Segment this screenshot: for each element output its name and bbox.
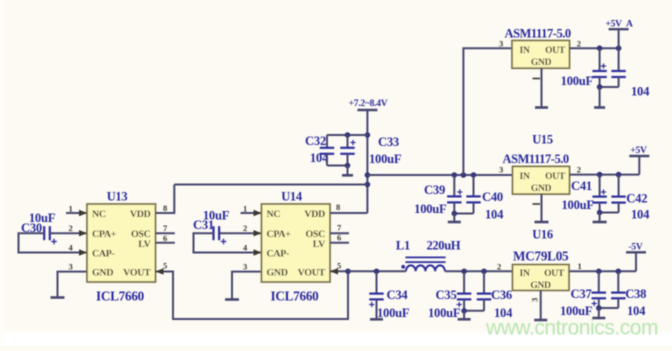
label 100uF of top capacitor — [561, 74, 594, 88]
pin number 4 of U14 — [243, 243, 248, 253]
junction C39 top — [452, 172, 458, 178]
svg-text:C35: C35 — [436, 288, 457, 302]
svg-text:ASM1117-5.0: ASM1117-5.0 — [503, 152, 569, 166]
pin number 3 of U13 — [69, 262, 73, 272]
wire C37 bottom to ground — [598, 308, 600, 318]
wire U14 pin 3 to ground — [232, 272, 262, 300]
inductor L1 phase dot — [401, 265, 405, 269]
label 104 of C36 — [494, 306, 513, 320]
svg-text:2: 2 — [577, 165, 581, 175]
pin number 2 of U15 — [577, 165, 581, 175]
U13 pin name GND — [92, 268, 113, 279]
svg-text:3: 3 — [243, 262, 247, 272]
pin number 1 of U14 — [243, 204, 247, 214]
svg-text:L1: L1 — [396, 239, 410, 253]
ground at U16 GND — [534, 319, 547, 322]
pin number 2 of U13 — [69, 223, 73, 233]
capacitor C36 — [477, 271, 491, 311]
svg-text:U13: U13 — [107, 190, 128, 204]
wire U14 pin 7 stub — [330, 232, 349, 234]
label 100uF of C37 — [560, 304, 593, 318]
svg-text:5: 5 — [337, 261, 341, 271]
wire U15 GND pin — [541, 194, 543, 222]
capacitor C33 — [340, 135, 355, 166]
power +5V A label — [606, 20, 634, 30]
wire U14 pin 5 to output rail — [330, 268, 348, 274]
label C39 — [424, 183, 445, 197]
wire top regulator OUT — [570, 47, 619, 49]
wire C35 C36 bottoms — [464, 310, 484, 312]
label 104 of C42 — [631, 208, 650, 222]
wire C41 C42 bottoms — [600, 212, 619, 214]
wire -5V riser — [635, 252, 637, 271]
label 100uF of C33 — [369, 152, 402, 166]
svg-text:100uF: 100uF — [428, 306, 461, 320]
junction top 100uF cap — [597, 45, 603, 51]
pin number 3 of U14 — [243, 262, 247, 272]
svg-text:100uF: 100uF — [561, 74, 594, 88]
ground at U13 pin 3 — [51, 296, 65, 299]
svg-text:2: 2 — [243, 223, 247, 233]
svg-text:6: 6 — [337, 233, 341, 243]
wire top capacitor to ground — [599, 87, 601, 108]
label C31 — [193, 218, 214, 232]
svg-text:IN: IN — [520, 172, 530, 182]
U13 pin name VOUT — [123, 268, 151, 279]
label C38 — [625, 287, 646, 301]
label ASM1117-5.0 of U15 — [503, 152, 569, 166]
pin number 6 of U13 — [163, 233, 167, 243]
wire C39 C40 bottoms — [454, 213, 473, 215]
pin number 3 of top regulator — [499, 39, 503, 49]
svg-text:GND: GND — [530, 281, 551, 291]
svg-text:8: 8 — [336, 202, 340, 212]
power bar +5V — [629, 155, 649, 157]
svg-text:U14: U14 — [281, 190, 303, 204]
label 10uF of C31 — [203, 209, 230, 223]
junction C35 bottom — [461, 308, 467, 314]
junction input/C32 branch — [365, 132, 371, 138]
svg-text:104: 104 — [627, 304, 646, 318]
svg-text:3: 3 — [69, 262, 73, 272]
pin number 2 of U14 — [243, 223, 247, 233]
wire U13 pin 6 stub — [156, 242, 175, 244]
wire U14 pin 8 to VDD rail — [330, 212, 367, 214]
svg-text:U16: U16 — [532, 228, 553, 242]
U16 pin name GND — [530, 281, 551, 291]
svg-text:C32: C32 — [305, 134, 326, 148]
svg-text:C33: C33 — [378, 135, 399, 149]
svg-text:ICL7660: ICL7660 — [96, 289, 145, 304]
svg-text:NC: NC — [92, 209, 106, 220]
label C37 — [571, 287, 592, 301]
junction VOUT rail — [345, 269, 351, 275]
ground at C35 C36 — [458, 318, 471, 321]
label C34 — [387, 288, 409, 302]
power bar +7.2~8.4V — [357, 109, 377, 111]
label 220uH of L1 — [427, 239, 461, 253]
svg-text:-5V: -5V — [628, 243, 642, 253]
label U14 — [281, 190, 303, 204]
svg-text:C34: C34 — [387, 288, 409, 302]
capacitor C34 — [369, 271, 384, 319]
U16 pin name IN — [520, 269, 530, 279]
wire riser to top regulator IN — [463, 48, 512, 175]
pin number 7 of U14 — [337, 223, 342, 233]
label U15 — [532, 133, 553, 147]
svg-text:104: 104 — [485, 208, 504, 222]
wire C32 C33 bottoms — [327, 165, 348, 167]
wire C30 to U13 pin 2 — [50, 230, 87, 236]
capacitor 100uF at top regulator — [592, 48, 606, 87]
U14 pin name CAP- — [267, 249, 290, 260]
svg-text:U15: U15 — [532, 133, 553, 147]
label 104 of C38 — [627, 304, 646, 318]
pin number 4 of U13 — [69, 243, 74, 253]
label 10uF of C30 — [29, 211, 56, 225]
wire +5V riser — [638, 156, 640, 175]
svg-text:GND: GND — [531, 58, 552, 68]
inductor L1 coil — [406, 265, 445, 271]
wire to C32 C33 tops — [327, 134, 367, 136]
svg-text:3: 3 — [530, 298, 540, 302]
pin number 2 of U16 — [497, 262, 501, 272]
svg-text:OUT: OUT — [545, 46, 566, 56]
U14 pin name VDD — [304, 209, 325, 220]
ground at C37 C38 — [592, 317, 605, 320]
svg-text:C40: C40 — [482, 190, 503, 204]
svg-text:IN: IN — [520, 46, 530, 56]
pin number 6 of U14 — [337, 233, 341, 243]
junction riser to top regulator — [461, 172, 467, 178]
wire +5V A riser — [618, 29, 620, 48]
capacitor C31 — [214, 226, 227, 244]
capacitor C41 — [592, 175, 606, 213]
wire input node to U15 IN — [367, 174, 512, 176]
U14 pin name LV — [313, 239, 326, 250]
IC U14 ICL7660 body — [262, 204, 331, 282]
svg-text:VDD: VDD — [130, 209, 151, 220]
wire U13 pin 3 to ground — [58, 272, 88, 298]
wire main input vertical — [366, 110, 368, 213]
svg-text:1: 1 — [578, 261, 582, 271]
wire U16 GND pin — [540, 290, 542, 320]
svg-text:C42: C42 — [626, 192, 647, 206]
svg-text:2: 2 — [69, 223, 73, 233]
svg-text:C36: C36 — [491, 288, 512, 302]
label 100uF of C35 — [428, 306, 461, 320]
pin number 1 of top regulator — [533, 78, 541, 80]
svg-text:IN: IN — [520, 269, 530, 279]
svg-text:3: 3 — [499, 165, 503, 175]
label ICL7660 of U14 — [270, 289, 319, 304]
label L1 — [396, 239, 410, 253]
regulator U16 MC79L05 body — [513, 265, 570, 291]
svg-text:C39: C39 — [424, 183, 445, 197]
wire U13 pin 8 to VDD rail — [156, 185, 175, 214]
svg-text:100uF: 100uF — [369, 152, 402, 166]
svg-text:VOUT: VOUT — [123, 268, 151, 279]
svg-text:LV: LV — [138, 239, 151, 250]
capacitor C42 — [611, 175, 625, 213]
label C33 — [378, 135, 399, 149]
U13 pin name VDD — [130, 209, 151, 220]
top regulator pin name GND — [531, 58, 552, 68]
top regulator pin name OUT — [545, 46, 566, 56]
power -5V label — [628, 243, 642, 253]
junction C33 top — [345, 132, 351, 138]
label U13 — [107, 190, 128, 204]
wire C33 bottom to ground — [347, 166, 349, 176]
junction C35 top — [461, 269, 467, 275]
power +7.2~8.4V label — [349, 99, 388, 109]
svg-text:C41: C41 — [571, 179, 592, 193]
label 100uF of C39 — [414, 202, 447, 216]
svg-text:104: 104 — [494, 306, 513, 320]
svg-text:ASM1117-5.0: ASM1117-5.0 — [505, 27, 571, 41]
ground at C41 C42 — [593, 221, 607, 224]
svg-text:3: 3 — [499, 39, 503, 49]
capacitor C32 — [320, 135, 334, 166]
label 104 of C40 — [485, 208, 504, 222]
svg-text:C38: C38 — [625, 287, 646, 301]
svg-text:CAP-: CAP- — [267, 249, 290, 260]
pin number 8 of U14 — [336, 202, 340, 212]
label 100uF of C34 — [377, 306, 410, 320]
pin number 3 of U16 — [530, 298, 540, 302]
wire top capacitor bottoms — [600, 86, 619, 88]
ground at U14 pin 3 — [225, 298, 239, 301]
svg-text:CPA+: CPA+ — [267, 229, 292, 240]
svg-text:+7.2~8.4V: +7.2~8.4V — [349, 99, 388, 109]
svg-text:VDD: VDD — [304, 209, 325, 220]
capacitor C30 — [44, 226, 57, 244]
svg-text:GND: GND — [92, 268, 113, 279]
junction C41 top — [597, 172, 603, 178]
U13 pin name LV — [138, 239, 151, 250]
svg-text:NC: NC — [267, 209, 281, 220]
regulator ASM1117-5.0 body — [512, 41, 570, 69]
svg-text:C37: C37 — [571, 287, 592, 301]
label C36 — [491, 288, 512, 302]
svg-text:1: 1 — [69, 204, 73, 214]
IC U13 ICL7660 body — [87, 204, 156, 282]
capacitor C35 — [457, 271, 472, 311]
svg-text:VOUT: VOUT — [298, 268, 326, 279]
U15 pin name GND — [531, 184, 552, 194]
label C41 — [571, 179, 592, 193]
junction C37 bottom — [596, 305, 602, 311]
U13 pin name NC — [92, 209, 106, 220]
svg-text:LV: LV — [313, 239, 326, 250]
inductor L1 core bars — [405, 257, 445, 262]
pin number 5 of U14 — [337, 261, 341, 271]
junction input/U15 branch — [365, 172, 371, 178]
label 104 of C32 — [310, 151, 329, 165]
svg-text:100uF: 100uF — [562, 198, 595, 212]
svg-text:CAP-: CAP- — [92, 249, 115, 260]
label U16 — [532, 228, 553, 242]
top regulator pin name IN — [520, 46, 530, 56]
wire U13 pin 1 stub — [66, 210, 87, 216]
svg-text:104: 104 — [631, 208, 650, 222]
junction C42 top — [616, 172, 622, 178]
wire C31 to U14 pin 2 — [219, 230, 261, 236]
wire U15 OUT — [570, 174, 640, 176]
svg-text:C31: C31 — [193, 218, 214, 232]
power +5V label — [630, 146, 647, 156]
regulator U15 ASM1117-5.0 body — [513, 166, 570, 194]
wire C35 bottom to ground — [463, 311, 465, 320]
svg-text:2: 2 — [497, 262, 501, 272]
ground at top capacitors — [594, 106, 605, 109]
U16 pin name OUT — [544, 269, 565, 279]
ground at C34 — [370, 318, 383, 321]
U14 pin name CPA+ — [267, 229, 292, 240]
svg-text:8: 8 — [163, 203, 167, 213]
wire U14 pin 1 stub — [241, 210, 262, 216]
svg-text:OUT: OUT — [544, 269, 565, 279]
U15 pin name OUT — [545, 172, 566, 182]
power bar -5V — [626, 251, 646, 253]
wire U16 OUT — [569, 270, 636, 272]
label 100uF of C41 — [562, 198, 595, 212]
U14 pin name NC — [267, 209, 281, 220]
capacitor C37 — [592, 271, 606, 308]
svg-text:1: 1 — [243, 204, 247, 214]
svg-text:2: 2 — [577, 39, 581, 49]
wire U14 pin 6 stub — [330, 242, 349, 244]
junction C36 top — [481, 269, 487, 275]
U15 pin name IN — [520, 172, 530, 182]
junction C34 top — [374, 269, 380, 275]
label ICL7660 of U13 — [96, 289, 145, 304]
svg-text:100uF: 100uF — [377, 306, 410, 320]
junction C41 bottom — [597, 210, 603, 216]
U13 pin name CAP- — [92, 249, 115, 260]
label C32 — [305, 134, 326, 148]
pin number 7 of U13 — [163, 223, 168, 233]
power bar +5V A — [609, 28, 629, 30]
pin number 1 of U13 — [69, 204, 73, 214]
svg-text:A: A — [626, 20, 633, 30]
svg-text:6: 6 — [163, 233, 167, 243]
ground at top regulator GND — [535, 106, 548, 109]
U14 pin name VOUT — [298, 268, 326, 279]
U14 pin name OSC — [305, 229, 325, 240]
svg-text:+5V: +5V — [630, 146, 647, 156]
pin number 2 of top regulator — [577, 39, 581, 49]
pin number 1 of U15 — [533, 203, 541, 205]
pin number 8 of U13 — [163, 203, 167, 213]
junction top capacitor bottom — [597, 84, 603, 90]
label 104 of top capacitor — [631, 85, 650, 99]
svg-text:100uF: 100uF — [560, 304, 593, 318]
label MC79L05 of U16 — [513, 249, 569, 264]
svg-text:220uH: 220uH — [427, 239, 461, 253]
svg-text:5: 5 — [163, 261, 167, 271]
watermark www.cntronics.com — [485, 317, 658, 340]
label C35 — [436, 288, 457, 302]
wire C39 bottom to ground — [453, 214, 455, 223]
wire C37 C38 bottoms — [599, 307, 619, 309]
junction C37 top — [596, 269, 602, 275]
svg-text:CPA+: CPA+ — [92, 229, 117, 240]
label C42 — [626, 192, 647, 206]
U13 pin name OSC — [131, 229, 151, 240]
wire U13 pin 7 stub — [156, 232, 175, 234]
svg-text:GND: GND — [531, 184, 552, 194]
svg-text:ICL7660: ICL7660 — [270, 289, 319, 304]
label ASM1117-5.0 of top regulator — [505, 27, 571, 41]
wire U13 pin 5 VOUT loop — [156, 268, 349, 319]
wire C31 loop to U14 pin 4 — [194, 233, 262, 256]
wire C41 bottom to ground — [599, 213, 601, 223]
junction +5V A riser — [616, 45, 622, 51]
wire top regulator GND pin — [541, 68, 543, 107]
svg-text:100uF: 100uF — [414, 202, 447, 216]
junction C38 top — [616, 269, 622, 275]
svg-text:OUT: OUT — [545, 172, 566, 182]
svg-text:GND: GND — [267, 268, 288, 279]
capacitor C40 — [466, 175, 480, 214]
label C40 — [482, 190, 503, 204]
pin number 1 of U16 — [578, 261, 582, 271]
U13 pin name CPA+ — [92, 229, 117, 240]
svg-text:MC79L05: MC79L05 — [513, 249, 569, 264]
label C30 — [21, 221, 42, 235]
ground at C32 C33 — [342, 174, 353, 177]
capacitor 104 at top regulator — [611, 48, 625, 87]
U14 pin name GND — [267, 268, 288, 279]
ground at U15 GND — [535, 221, 549, 224]
wire VDD rail U13 to U14 — [174, 184, 367, 186]
svg-text:104: 104 — [631, 85, 650, 99]
junction C40 top — [471, 172, 477, 178]
pin number 3 of U15 — [499, 165, 503, 175]
capacitor C39 — [447, 175, 462, 214]
junction VDD rail branch — [365, 182, 371, 188]
capacitor C38 — [611, 271, 625, 308]
ground at C39 C40 — [448, 221, 461, 224]
junction C33 bottom — [345, 163, 351, 169]
junction C39 bottom — [452, 211, 458, 217]
svg-text:+5V: +5V — [606, 20, 623, 30]
wire C30 loop to U13 pin 4 — [19, 233, 88, 256]
pin number 5 of U13 — [163, 261, 167, 271]
wire output rail through L1 — [348, 270, 513, 272]
